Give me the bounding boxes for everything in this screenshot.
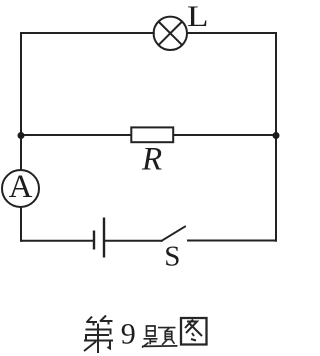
svg-text:S: S bbox=[164, 240, 180, 272]
svg-text:R: R bbox=[141, 141, 162, 177]
svg-text:A: A bbox=[9, 169, 33, 205]
svg-text:9: 9 bbox=[121, 318, 136, 351]
svg-text:L: L bbox=[187, 0, 209, 33]
